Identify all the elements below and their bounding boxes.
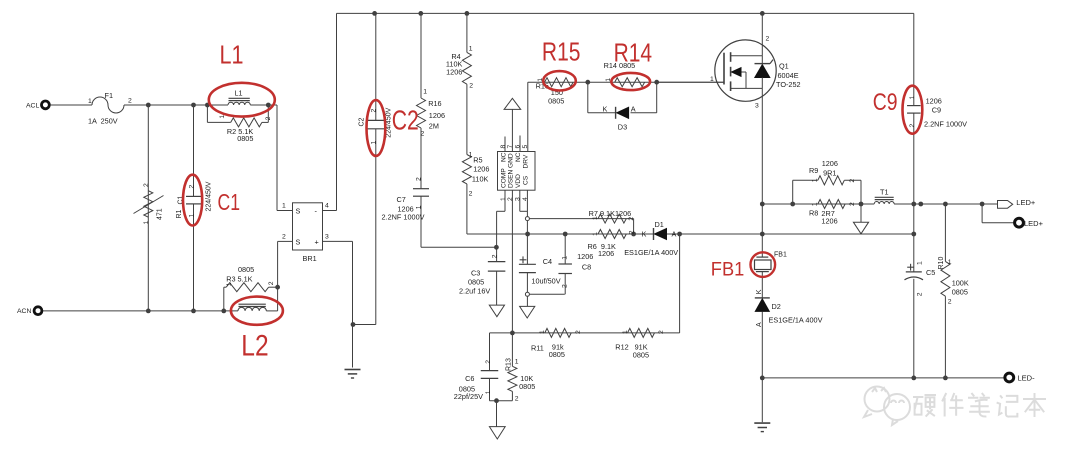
svg-text:1: 1 <box>592 232 599 236</box>
svg-text:A: A <box>672 229 677 238</box>
svg-text:R9: R9 <box>809 166 818 175</box>
svg-text:FB1: FB1 <box>711 259 745 280</box>
svg-text:DSEN: DSEN <box>508 169 515 188</box>
svg-text:5: 5 <box>522 145 529 149</box>
svg-text:0805: 0805 <box>633 350 649 359</box>
svg-text:R1: R1 <box>176 209 183 218</box>
svg-text:2: 2 <box>469 83 473 90</box>
svg-text:D1: D1 <box>655 220 664 229</box>
svg-text:T1: T1 <box>880 188 889 197</box>
svg-text:2: 2 <box>491 254 498 258</box>
svg-text:0805: 0805 <box>468 278 484 287</box>
svg-text:224/450V: 224/450V <box>205 181 212 211</box>
svg-text:3: 3 <box>325 234 329 241</box>
svg-text:3: 3 <box>755 103 759 110</box>
svg-text:BR1: BR1 <box>303 254 317 263</box>
svg-text:1: 1 <box>370 141 377 145</box>
svg-text:ACN: ACN <box>17 308 31 315</box>
svg-text:4: 4 <box>325 203 329 210</box>
svg-text:2: 2 <box>658 330 665 334</box>
svg-text:8: 8 <box>500 145 507 149</box>
svg-text:2: 2 <box>128 98 132 105</box>
svg-text:9R1: 9R1 <box>823 168 836 177</box>
svg-text:R13: R13 <box>506 358 513 371</box>
svg-text:1: 1 <box>469 152 473 159</box>
svg-text:1: 1 <box>500 197 507 201</box>
svg-text:FB1: FB1 <box>774 252 787 259</box>
svg-text:1206: 1206 <box>429 111 445 120</box>
svg-text:COMP: COMP <box>500 168 507 188</box>
svg-text:1: 1 <box>188 214 195 218</box>
svg-text:1: 1 <box>515 359 519 366</box>
svg-text:3: 3 <box>515 197 522 201</box>
svg-text:2: 2 <box>909 124 916 128</box>
svg-text:2: 2 <box>282 234 286 241</box>
svg-text:1: 1 <box>143 221 150 225</box>
svg-text:ES1GE/1A 400V: ES1GE/1A 400V <box>769 316 823 325</box>
svg-text:R14: R14 <box>614 38 653 68</box>
svg-text:A: A <box>631 105 636 114</box>
svg-text:C9: C9 <box>873 89 898 116</box>
svg-text:LED-: LED- <box>1018 374 1036 383</box>
svg-text:+: + <box>315 238 319 247</box>
svg-text:2: 2 <box>416 177 423 181</box>
svg-text:C5: C5 <box>926 268 935 277</box>
svg-text:2: 2 <box>485 360 492 364</box>
svg-text:2.2NF 1000V: 2.2NF 1000V <box>382 213 425 222</box>
svg-text:2: 2 <box>917 292 924 296</box>
svg-text:R5: R5 <box>473 155 482 164</box>
svg-text:L1: L1 <box>235 89 243 98</box>
svg-text:R3 5.1K: R3 5.1K <box>226 274 252 283</box>
svg-text:2: 2 <box>948 299 952 306</box>
svg-text:1: 1 <box>539 330 546 334</box>
svg-text:R12: R12 <box>615 343 628 352</box>
svg-text:K: K <box>642 229 647 238</box>
svg-text:471: 471 <box>157 208 164 220</box>
svg-text:1: 1 <box>485 390 492 394</box>
svg-text:Q1: Q1 <box>779 62 789 71</box>
svg-text:2: 2 <box>766 36 770 43</box>
svg-text:1206: 1206 <box>446 68 462 77</box>
svg-text:ACL: ACL <box>26 102 39 109</box>
svg-text:2: 2 <box>188 185 195 189</box>
svg-text:1: 1 <box>917 261 924 265</box>
svg-text:1: 1 <box>469 45 473 52</box>
svg-text:L2: L2 <box>241 330 268 363</box>
svg-text:C9: C9 <box>932 106 941 115</box>
svg-text:R16: R16 <box>428 99 441 108</box>
svg-text:1206: 1206 <box>473 165 489 174</box>
svg-text:2: 2 <box>143 183 150 187</box>
svg-text:F1: F1 <box>105 91 114 100</box>
svg-text:NC: NC <box>515 152 522 162</box>
svg-text:R8: R8 <box>809 209 818 218</box>
svg-text:4: 4 <box>522 197 529 201</box>
svg-text:2: 2 <box>628 217 635 221</box>
svg-text:S: S <box>296 207 301 216</box>
svg-text:2: 2 <box>421 131 425 138</box>
svg-text:0805: 0805 <box>519 382 535 391</box>
svg-text:C4: C4 <box>543 257 552 266</box>
svg-text:C2: C2 <box>392 105 419 136</box>
svg-text:10uf/50V: 10uf/50V <box>531 276 560 285</box>
svg-text:LED+: LED+ <box>1024 219 1044 228</box>
svg-text:1: 1 <box>282 203 286 210</box>
svg-text:7: 7 <box>507 145 514 149</box>
svg-text:1: 1 <box>423 89 427 96</box>
svg-text:TO-252: TO-252 <box>776 80 801 89</box>
svg-text:K: K <box>603 105 608 114</box>
svg-text:2: 2 <box>628 230 635 234</box>
svg-text:2: 2 <box>849 202 856 206</box>
svg-text:2: 2 <box>370 109 377 113</box>
svg-text:D2: D2 <box>772 302 781 311</box>
svg-text:2: 2 <box>265 116 272 120</box>
svg-text:2: 2 <box>469 191 473 198</box>
svg-text:1206: 1206 <box>822 159 838 168</box>
svg-text:S: S <box>296 238 301 247</box>
svg-text:1: 1 <box>811 202 818 206</box>
svg-text:1: 1 <box>909 96 916 100</box>
svg-text:6: 6 <box>515 145 522 149</box>
svg-text:0805: 0805 <box>952 287 968 296</box>
svg-text:C6: C6 <box>465 374 474 383</box>
svg-text:22pf/25V: 22pf/25V <box>454 392 483 401</box>
svg-text:1A 250V: 1A 250V <box>88 117 118 126</box>
svg-text:D3: D3 <box>618 123 627 132</box>
svg-text:2.2uf 16V: 2.2uf 16V <box>459 287 490 296</box>
svg-text:2: 2 <box>575 330 582 334</box>
svg-text:2: 2 <box>561 284 568 288</box>
svg-text:1: 1 <box>226 282 233 286</box>
svg-text:R10: R10 <box>938 257 945 270</box>
svg-text:110K: 110K <box>472 174 489 183</box>
svg-text:L1: L1 <box>220 39 244 69</box>
svg-text:0805: 0805 <box>548 97 564 106</box>
svg-text:C8: C8 <box>582 262 591 271</box>
svg-text:2M: 2M <box>429 121 439 130</box>
svg-text:1206: 1206 <box>598 249 614 258</box>
svg-text:2: 2 <box>507 197 514 201</box>
svg-text:R11: R11 <box>531 344 544 353</box>
svg-text:1: 1 <box>622 330 629 334</box>
svg-text:1206: 1206 <box>926 97 942 106</box>
svg-text:1: 1 <box>811 178 818 182</box>
svg-text:6004E: 6004E <box>778 71 799 80</box>
svg-text:NC: NC <box>500 152 507 162</box>
svg-text:K: K <box>756 289 763 294</box>
svg-text:2.2NF 1000V: 2.2NF 1000V <box>924 120 967 129</box>
svg-text:1: 1 <box>416 205 423 209</box>
svg-text:C3: C3 <box>471 269 480 278</box>
svg-text:CS: CS <box>523 175 530 185</box>
svg-text:0805: 0805 <box>237 134 253 143</box>
svg-text:R15: R15 <box>542 37 581 67</box>
svg-text:1: 1 <box>592 216 599 220</box>
svg-text:100K: 100K <box>952 279 969 288</box>
svg-text:2: 2 <box>515 395 519 402</box>
svg-text:LED+: LED+ <box>1016 198 1036 207</box>
svg-text:0805: 0805 <box>549 350 565 359</box>
svg-text:A: A <box>756 322 763 327</box>
svg-text:1: 1 <box>948 259 952 266</box>
svg-text:C2: C2 <box>359 117 366 126</box>
svg-text:1206: 1206 <box>821 216 837 225</box>
svg-text:2: 2 <box>268 281 275 285</box>
svg-text:0805: 0805 <box>238 265 254 274</box>
svg-text:1206: 1206 <box>577 252 593 261</box>
svg-text:GND: GND <box>508 153 515 168</box>
svg-text:1: 1 <box>88 98 92 105</box>
svg-text:ES1GE/1A 400V: ES1GE/1A 400V <box>624 248 678 257</box>
svg-text:1: 1 <box>561 256 568 260</box>
svg-text:2: 2 <box>849 179 856 183</box>
svg-text:DRV: DRV <box>523 154 530 168</box>
svg-text:VDD: VDD <box>515 174 522 188</box>
svg-text:C1: C1 <box>218 189 241 215</box>
svg-text:C7: C7 <box>397 195 406 204</box>
svg-text:1: 1 <box>710 76 714 83</box>
